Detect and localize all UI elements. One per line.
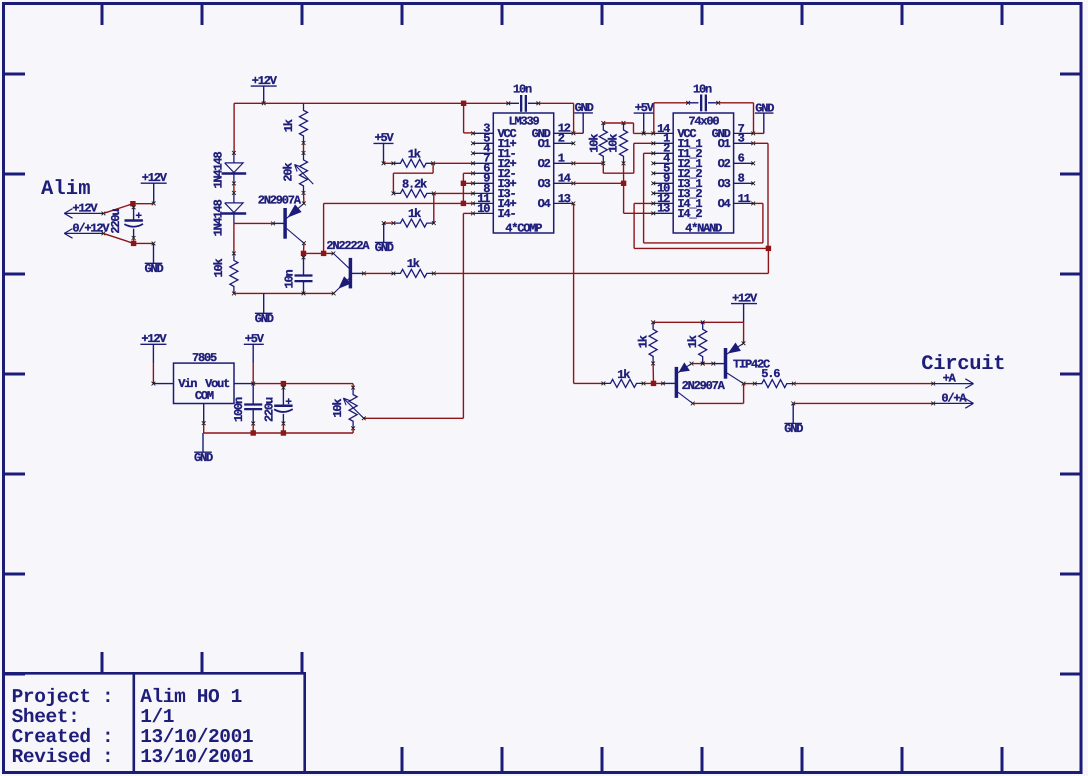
node junction	[621, 181, 626, 186]
port +12V arrow	[64, 212, 103, 214]
svg-text:10k: 10k	[588, 134, 602, 153]
svg-text:+12V: +12V	[72, 201, 98, 215]
wire	[103, 204, 132, 214]
wire	[433, 193, 435, 223]
wire collectors	[693, 402, 744, 404]
ground GND	[153, 243, 155, 263]
svg-text:10k: 10k	[606, 134, 620, 153]
wire	[652, 363, 654, 383]
diode D2 1N4148	[232, 191, 236, 195]
diode D1 1N4148	[232, 151, 236, 155]
node junction	[321, 251, 326, 256]
svg-text:2: 2	[558, 132, 565, 146]
wire	[433, 162, 473, 164]
svg-text:4*NAND: 4*NAND	[685, 222, 722, 236]
resistor 1k	[364, 272, 394, 274]
node junction	[130, 201, 135, 206]
wire	[252, 364, 254, 384]
svg-text:10k: 10k	[331, 399, 345, 418]
wire O2 to I1_1	[572, 162, 603, 164]
svg-text:10k: 10k	[212, 259, 226, 278]
svg-text:1/1: 1/1	[140, 706, 174, 728]
svg-text:Circuit: Circuit	[921, 353, 1005, 376]
wire	[152, 364, 154, 384]
svg-text:1k: 1k	[686, 335, 700, 348]
wire	[718, 102, 753, 104]
svg-text:I4_2: I4_2	[677, 207, 702, 221]
wire O1 feedback	[752, 142, 768, 144]
svg-text:+A: +A	[943, 371, 957, 385]
title block	[4, 672, 306, 675]
svg-text:10n: 10n	[283, 270, 297, 289]
svg-text:13/10/2001: 13/10/2001	[140, 746, 253, 768]
svg-text:COM: COM	[195, 389, 214, 403]
wire	[644, 382, 664, 384]
svg-text:Sheet:: Sheet:	[12, 706, 80, 728]
wire O3 node	[572, 182, 624, 184]
wire bottom rail	[234, 292, 334, 294]
resistor 1k	[392, 161, 396, 165]
svg-text:O4: O4	[718, 197, 731, 211]
svg-text:1: 1	[558, 152, 565, 166]
svg-text:10: 10	[477, 202, 490, 216]
capacitor 220u	[282, 384, 284, 388]
node junction	[131, 241, 136, 246]
ground GND	[792, 403, 794, 423]
svg-text:1k: 1k	[408, 207, 421, 221]
node junction	[281, 381, 286, 386]
wire	[233, 223, 235, 253]
wire COM to rail	[203, 423, 205, 433]
resistor 1k	[701, 320, 705, 324]
wire	[303, 193, 305, 204]
svg-text:Alim HO 1: Alim HO 1	[140, 686, 242, 708]
svg-text:O2: O2	[538, 157, 551, 171]
wire bottom rail	[204, 432, 353, 434]
svg-text:Created :: Created :	[12, 726, 114, 748]
regulator U3 7805	[174, 363, 235, 403]
resistor 1k from O4	[574, 382, 604, 384]
wire	[434, 192, 473, 194]
svg-text:7805: 7805	[192, 351, 217, 365]
wire	[233, 183, 235, 193]
svg-text:O3: O3	[718, 177, 731, 191]
svg-text:GND: GND	[144, 262, 163, 276]
svg-text:Project :: Project :	[12, 686, 114, 708]
svg-text:11: 11	[738, 192, 751, 206]
svg-text:100n: 100n	[232, 397, 246, 422]
svg-text:1k: 1k	[617, 368, 630, 382]
wire emitter to 1k and TIP base	[692, 363, 714, 365]
resistor 1k	[651, 320, 655, 324]
port 0/+12V arrow	[64, 232, 103, 234]
wire	[384, 162, 394, 164]
svg-text:0/+A: 0/+A	[941, 391, 967, 405]
ground GND	[383, 223, 385, 242]
svg-text:6: 6	[738, 152, 745, 166]
svg-text:4*COMP: 4*COMP	[505, 222, 542, 236]
node junction	[301, 251, 306, 256]
wire to 0/+A	[793, 402, 933, 404]
svg-text:1N4148: 1N4148	[211, 199, 225, 236]
resistor 5.6	[753, 382, 757, 386]
node junction	[651, 381, 656, 386]
capacitor 10n	[653, 103, 655, 134]
wire base	[234, 222, 273, 224]
svg-text:GND: GND	[784, 422, 803, 436]
resistor 8.2k	[392, 192, 396, 196]
wire to +A	[794, 383, 933, 385]
svg-text:O2: O2	[718, 157, 731, 171]
node junction	[281, 430, 286, 435]
wire long to O1 node	[434, 272, 769, 274]
resistor 10k	[232, 252, 236, 256]
svg-text:2N2907A: 2N2907A	[682, 379, 726, 393]
ground GND	[263, 293, 265, 313]
resistor 10k pullup B	[620, 123, 628, 163]
ground GND	[202, 433, 204, 452]
wire	[744, 383, 755, 385]
wire	[304, 252, 334, 254]
node junction	[766, 246, 771, 251]
svg-text:14: 14	[558, 172, 571, 186]
wire top rail	[653, 321, 744, 323]
svg-text:3: 3	[738, 132, 745, 146]
svg-text:220u: 220u	[263, 397, 277, 422]
svg-text:GND: GND	[375, 241, 394, 255]
svg-text:13: 13	[558, 192, 571, 206]
wire	[384, 222, 394, 224]
wire O4 riser down	[573, 203, 575, 383]
svg-text:1k: 1k	[636, 335, 650, 348]
wire VCC drop	[461, 101, 466, 106]
capacitor 100n	[252, 384, 254, 405]
capacitor 10n	[303, 253, 305, 257]
svg-text:O3: O3	[538, 177, 551, 191]
op-amp U1 LM339 quad comparator	[493, 113, 553, 233]
svg-text:O1: O1	[538, 137, 551, 151]
node junction	[461, 201, 466, 206]
resistor 1k	[300, 103, 308, 143]
wire	[103, 233, 133, 243]
capacitor 220u	[133, 204, 135, 208]
wire Vout rail	[253, 383, 353, 385]
wire	[303, 143, 305, 153]
svg-text:5.6: 5.6	[761, 367, 780, 381]
svg-text:O1: O1	[718, 137, 731, 151]
svg-text:13/10/2001: 13/10/2001	[140, 726, 253, 748]
potentiometer 20k	[302, 151, 306, 155]
svg-text:10n: 10n	[693, 83, 712, 97]
svg-text:O4: O4	[538, 197, 551, 211]
svg-text:2N2222A: 2N2222A	[326, 239, 370, 253]
wire collector	[303, 243, 305, 253]
svg-text:1k: 1k	[407, 257, 420, 271]
wire	[538, 102, 573, 104]
svg-text:I4-: I4-	[498, 207, 516, 221]
resistor 10k pullup A	[599, 123, 607, 163]
svg-text:10n: 10n	[513, 83, 532, 97]
wire jog to 8.2k	[432, 163, 434, 173]
svg-text:8.2k: 8.2k	[402, 178, 427, 192]
svg-text:1k: 1k	[408, 147, 421, 161]
svg-text:220u: 220u	[109, 209, 123, 234]
svg-text:20k: 20k	[281, 163, 295, 182]
wire pin10 to pot wiper	[463, 212, 473, 214]
potentiometer 10k	[352, 384, 354, 388]
wire	[133, 203, 154, 205]
wire I4_1 to O1	[634, 202, 653, 204]
wire	[134, 242, 154, 244]
svg-text:GND: GND	[194, 451, 213, 465]
wire pullup rail to VCC	[603, 122, 633, 124]
node junction	[461, 181, 466, 186]
svg-text:1k: 1k	[282, 119, 296, 132]
wire	[233, 103, 235, 153]
capacitor 10n	[506, 101, 510, 105]
node junction	[251, 430, 256, 435]
svg-text:8: 8	[738, 172, 745, 186]
logic IC U2 74x00 quad NAND	[673, 113, 733, 233]
svg-text:Revised :: Revised :	[12, 746, 114, 768]
wire	[352, 428, 354, 433]
svg-text:1N4148: 1N4148	[211, 152, 225, 189]
wire riser to pin11 net	[323, 203, 325, 253]
port +A arrow	[931, 382, 935, 386]
svg-text:GND: GND	[255, 312, 274, 326]
svg-text:Alim: Alim	[41, 178, 91, 201]
wire +12V rail	[234, 102, 508, 104]
wire pin6 ladder	[463, 172, 473, 174]
svg-text:13: 13	[657, 202, 670, 216]
wire I1_2 to O4	[644, 152, 654, 154]
port 0/+A arrow	[931, 402, 935, 406]
resistor 1k	[392, 221, 396, 225]
